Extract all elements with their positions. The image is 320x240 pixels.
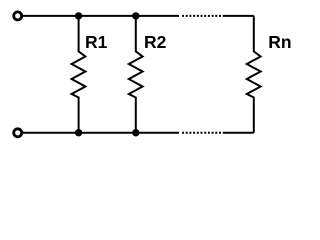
svg-text:Rn: Rn bbox=[268, 32, 291, 52]
svg-text:R1: R1 bbox=[85, 32, 108, 52]
svg-text:R2: R2 bbox=[144, 32, 167, 52]
